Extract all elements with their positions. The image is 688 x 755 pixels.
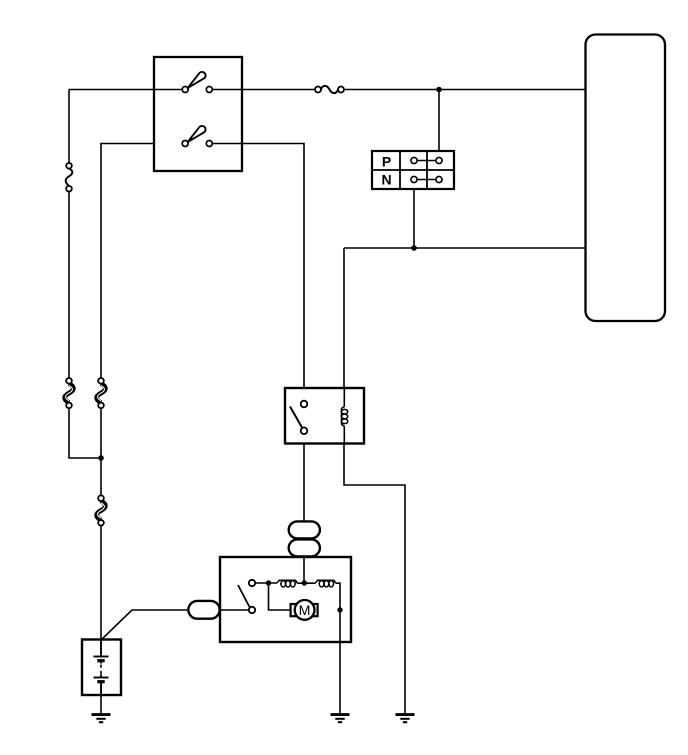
battery cell plates bbox=[94, 640, 109, 696]
connector double-wave left bus bbox=[65, 378, 74, 408]
node junction left bus bbox=[98, 455, 104, 461]
node junction lower bus bbox=[411, 245, 417, 251]
fuse bbox=[315, 86, 344, 93]
wire PN block to lower bus bbox=[413, 189, 415, 248]
connector double-wave second feed upper bbox=[97, 378, 106, 408]
starter switch lever bbox=[238, 585, 250, 607]
ground relay bbox=[396, 715, 415, 723]
battery box bbox=[82, 640, 121, 696]
wire switch A to fuse bbox=[212, 89, 315, 91]
connector double-wave second feed lower bbox=[97, 495, 106, 525]
wire battery negative to ground bbox=[100, 695, 102, 714]
wire bus to relay coil bbox=[343, 248, 345, 388]
node motor right junction bbox=[337, 607, 342, 612]
wire switch B output bbox=[212, 144, 304, 389]
connector single-wave left bus bbox=[66, 163, 73, 192]
wire second feed upper bbox=[101, 144, 154, 379]
wire battery positive run bbox=[101, 610, 189, 640]
relay coil bbox=[341, 388, 347, 444]
motor M bbox=[291, 600, 318, 620]
wire left bus vertical middle bbox=[68, 191, 70, 378]
PN contacts P row bbox=[411, 157, 442, 163]
wire fuse to headlight unit bbox=[344, 89, 585, 91]
PN contacts N row bbox=[411, 176, 442, 182]
switch B lever bbox=[188, 126, 206, 142]
svg-text:N: N bbox=[381, 172, 391, 188]
node field coil center junction bbox=[302, 580, 307, 585]
starter relay box bbox=[285, 388, 364, 444]
wire second feed lower bbox=[100, 525, 102, 639]
wire top feed left bbox=[69, 89, 182, 91]
starter motor unit box bbox=[220, 557, 351, 642]
ground battery bbox=[92, 715, 111, 723]
wire left bus vertical lower bbox=[69, 408, 101, 458]
connector pill lower bbox=[289, 539, 320, 556]
combination switch box bbox=[154, 57, 242, 171]
wire lower bus to headlight unit bbox=[344, 247, 585, 249]
headlight unit bbox=[586, 35, 666, 322]
wire relay coil to ground run bbox=[344, 444, 405, 714]
wire oval connector to starter switch bbox=[220, 609, 249, 611]
wire pills into starter unit bbox=[303, 556, 305, 583]
svg-text:P: P bbox=[382, 153, 391, 169]
field coil 1 bbox=[277, 580, 297, 587]
wire starter motor return to ground bbox=[339, 610, 341, 714]
wire between coils bbox=[297, 582, 315, 584]
wire second feed middle bbox=[100, 408, 102, 496]
PN indicator block bbox=[372, 151, 454, 189]
relay switch lever bbox=[290, 407, 302, 428]
wire coil 2 to right drop bbox=[336, 583, 340, 610]
switch A lever bbox=[188, 72, 206, 88]
wire armature branch left bbox=[269, 583, 291, 610]
node field coil left junction bbox=[266, 580, 271, 585]
wire junction to PN block bbox=[438, 90, 440, 152]
switch B contacts bbox=[182, 141, 212, 147]
connector pill upper bbox=[289, 521, 320, 538]
svg-text:M: M bbox=[299, 603, 311, 619]
relay switch contacts bbox=[301, 401, 308, 434]
switch A contacts bbox=[182, 87, 212, 93]
wire relay switch to connector pills bbox=[303, 444, 305, 522]
oval bullet connector bbox=[188, 601, 219, 619]
starter switch contacts bbox=[249, 580, 255, 613]
ground starter motor bbox=[331, 715, 350, 723]
wire starter switch to field coils bbox=[255, 582, 277, 584]
field coil 2 bbox=[315, 580, 335, 587]
node junction top bbox=[436, 87, 442, 93]
wire left bus vertical upper bbox=[68, 90, 70, 164]
